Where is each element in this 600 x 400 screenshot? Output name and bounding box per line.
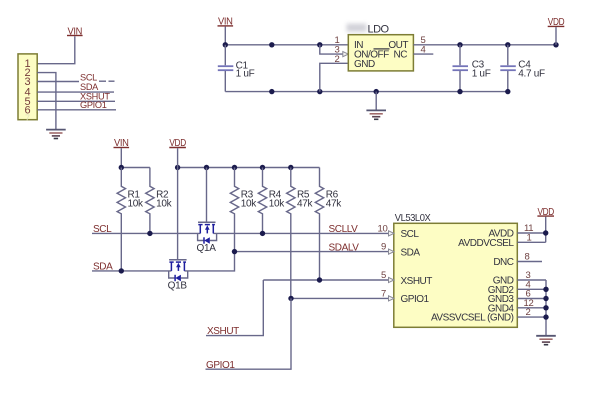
wire GPIO1 bottom run [206, 298, 292, 369]
svg-text:SDA: SDA [401, 247, 421, 258]
wire input rail to LDO IN [225, 44, 348, 46]
op-amp U1 VL53L0X box [394, 212, 518, 327]
junction dot R3-SDALV [232, 249, 237, 254]
svg-text:47k: 47k [326, 198, 343, 209]
svg-text:VL53L0X: VL53L0X [395, 212, 431, 224]
svg-text:XSHUT: XSHUT [401, 276, 433, 287]
svg-text:1: 1 [527, 232, 532, 243]
transistor Q1B [168, 148, 188, 291]
svg-text:Q1A: Q1A [197, 243, 217, 254]
ground (LDO) [375, 92, 377, 110]
junction dot AVDD [543, 230, 548, 235]
wire VIN rail [121, 167, 150, 169]
junction dots GND bus [543, 287, 548, 292]
ground (sensor) [536, 336, 556, 345]
wire LDO NC stub [413, 53, 433, 55]
svg-text:10k: 10k [128, 198, 145, 209]
connector J1 [18, 54, 37, 123]
svg-text:7: 7 [25, 113, 30, 123]
junction dot VIN rail [119, 165, 124, 170]
svg-text:10k: 10k [156, 198, 173, 209]
capacitor C4 [500, 45, 545, 92]
svg-text:SCLLV: SCLLV [329, 224, 359, 235]
junction dots input rail [223, 42, 228, 47]
wire LDO pin3 ON/OFF branch [320, 45, 343, 54]
wire pin 5 XSHUT [37, 100, 115, 102]
svg-text:AVSSVCSEL (GND): AVSSVCSEL (GND) [431, 313, 514, 324]
capacitor C1 [218, 45, 255, 92]
wire GND bus [545, 280, 547, 335]
junction dots ground rail [269, 89, 274, 94]
svg-text:9: 9 [381, 242, 386, 253]
svg-text:7: 7 [381, 288, 386, 299]
op-amp U2 LDO box [347, 23, 414, 71]
wire LDO pin2 GND branch [320, 63, 349, 91]
svg-text:2: 2 [335, 54, 340, 65]
svg-text:5: 5 [381, 270, 386, 281]
resistor R6 [315, 168, 342, 281]
svg-text:10: 10 [378, 223, 388, 234]
svg-text:LDO: LDO [368, 23, 390, 35]
svg-text:GND: GND [354, 59, 375, 70]
pin 5 XSHUT [389, 277, 395, 282]
wire SCLLV line right of Q1A [213, 232, 394, 234]
resistor R5 [287, 168, 314, 299]
pin 9 SDA [389, 249, 395, 254]
pin 7 GPIO1 [389, 296, 395, 301]
junction dots VDD rail [175, 165, 180, 170]
junction dot R1-SDA [119, 268, 124, 273]
supply flag VDD (sensor) [537, 207, 554, 218]
resistor R1 [117, 168, 144, 271]
capacitor C3 [453, 45, 491, 92]
wire VIN flag to pin 1 [37, 36, 75, 64]
wire SCL dashes [99, 80, 106, 82]
svg-text:Q1B: Q1B [168, 280, 188, 291]
svg-text:SCL: SCL [401, 229, 420, 240]
ground (connector pin 2) [46, 130, 66, 139]
wire pin 2 to ground [37, 73, 56, 130]
supply flag VIN (pull-ups) [114, 138, 130, 167]
svg-text:47k: 47k [297, 198, 314, 209]
svg-text:DNC: DNC [493, 257, 513, 268]
wire pin 6 GPIO1 [37, 109, 116, 111]
wire SCL line left of Q1A [92, 232, 200, 234]
wire VDD to AVDD/AVDDVCSEL [545, 217, 547, 243]
svg-text:4.7 uF: 4.7 uF [518, 69, 545, 80]
wire pin 4 SDA [37, 91, 114, 93]
wire XSHUT line to chip [263, 279, 394, 281]
supply flag VIN (connector) [67, 26, 83, 37]
wire LDO OUT rail to VDD [413, 44, 556, 46]
svg-text:AVDDVCSEL: AVDDVCSEL [458, 238, 514, 249]
transistor Q1A [197, 168, 217, 254]
junction dot R4-SCLLV [260, 231, 265, 236]
svg-text:NC: NC [394, 50, 408, 61]
wire ground rail (regulator) [225, 91, 508, 93]
wire VIN down to input rail [224, 27, 226, 45]
junction dot R2-SCL [147, 231, 152, 236]
wire pin 3 SCL stub [37, 81, 79, 83]
supply flag VIN (regulator input) [218, 17, 234, 28]
svg-text:10k: 10k [241, 198, 258, 209]
resistor R4 [258, 168, 285, 234]
svg-text:10k: 10k [269, 198, 286, 209]
resistor R3 [230, 168, 257, 252]
svg-text:GPIO1: GPIO1 [401, 294, 430, 305]
junction dot R6-XSHUT [317, 277, 322, 282]
wire GPIO1 line to chip [291, 297, 394, 299]
wire SDA line left of Q1B [92, 270, 171, 272]
svg-text:8: 8 [525, 252, 530, 263]
svg-text:SCL: SCL [80, 72, 97, 82]
junction dot R5-GPIO1 [288, 296, 293, 301]
svg-text:GPIO1: GPIO1 [80, 100, 107, 110]
wire SDA line right of Q1B up to SDALV [184, 252, 234, 271]
pin 10 SCL [389, 231, 395, 236]
wire XSHUT bottom run [206, 280, 263, 336]
wire VDD rail [178, 167, 320, 169]
svg-text:1 uF: 1 uF [472, 69, 491, 80]
svg-text:2: 2 [526, 307, 531, 318]
svg-text:1 uF: 1 uF [236, 68, 255, 79]
supply flag VDD (pull-ups) [169, 138, 186, 149]
supply flag VDD (regulator output) [548, 17, 565, 45]
junction dots output rail [457, 42, 462, 47]
junction dots C3 C4 ground [457, 89, 462, 94]
wire SDALV line [235, 251, 395, 253]
resistor R2 [146, 168, 173, 234]
